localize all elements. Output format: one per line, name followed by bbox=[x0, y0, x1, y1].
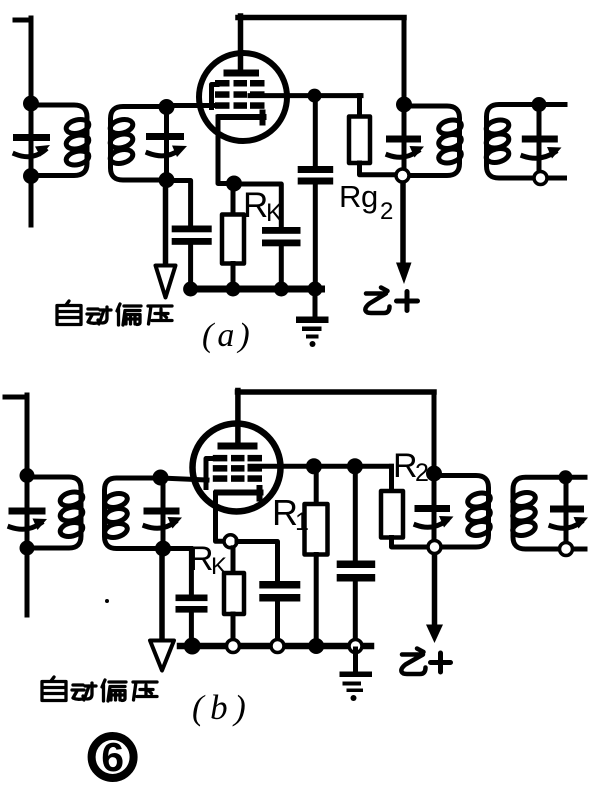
grid g3 dashed row of V2 (b) bbox=[213, 455, 228, 462]
label: Chinese text automatic bias (b) bbox=[42, 677, 157, 701]
node: open ring bottom of secondary tank (a) bbox=[534, 172, 547, 185]
resistor R1 (b) bbox=[305, 504, 328, 555]
capacitor: screen bypass cap (b) bbox=[337, 561, 376, 569]
arrow: B+ solid arrowhead (a) bbox=[396, 263, 412, 285]
capacitor: variable cap of plate tank (b) bbox=[432, 474, 437, 548]
cathode of V1 (a) bbox=[220, 113, 264, 123]
wire: right cap bottom stem (b) bbox=[275, 602, 280, 644]
wire: ground bus (a) bbox=[188, 286, 322, 293]
svg-text:2: 2 bbox=[415, 459, 429, 487]
svg-text:1: 1 bbox=[295, 508, 309, 536]
wire: screen to Rg2 corner (a) bbox=[357, 96, 362, 117]
grid g3 dashed row of V1 (a) bbox=[215, 80, 230, 87]
svg-text:(b): (b) bbox=[192, 688, 252, 727]
node: bus junction at right cap (a) bbox=[274, 282, 289, 297]
svg-text:K: K bbox=[211, 553, 227, 580]
node: open ring junction at B+ (a) bbox=[396, 169, 409, 182]
arrow: B+ solid arrowhead (b) bbox=[426, 625, 443, 644]
svg-text:6: 6 bbox=[101, 734, 124, 780]
node: tank2 bottom junction (b) bbox=[155, 541, 171, 557]
capacitor: left bypass cap (b) bbox=[176, 595, 208, 602]
wire: RK top stem (a) bbox=[231, 184, 236, 215]
wire: right cap bottom stem (a) bbox=[279, 246, 284, 288]
capacitor: variable cap of plate tank (a) bbox=[402, 105, 407, 175]
label 乙+ B plus supply (a) bbox=[365, 288, 389, 314]
svg-text:R: R bbox=[339, 179, 361, 214]
anode plate bar of V2 (b) bbox=[218, 443, 258, 450]
wire: plate top lead (a) bbox=[238, 16, 244, 70]
node: tank1 bottom junction (b) bbox=[20, 541, 35, 556]
wire: screen junction down to bypass cap C3 (a) bbox=[313, 96, 318, 167]
grid g1 dashed row of V1 (a) bbox=[215, 102, 230, 109]
wire: R1 top stem (b) bbox=[314, 466, 319, 504]
wire: cathode node to right bypass cap (a) bbox=[234, 184, 281, 228]
figure number 6 in circle bbox=[92, 736, 134, 778]
resistor RK (b) bbox=[224, 573, 244, 614]
svg-text:R: R bbox=[189, 540, 214, 578]
resistor RK (a) bbox=[222, 215, 244, 264]
capacitor: variable tuning cap of tank2 (a) bbox=[164, 107, 169, 180]
node: tank1 bottom junction (a) bbox=[23, 168, 39, 184]
node: screen junction at R1 (b) bbox=[306, 458, 322, 474]
wire: B+ vertical line (a) bbox=[402, 18, 407, 105]
node: bus open ring at ground (b) bbox=[349, 640, 362, 653]
inductor: IF transformer primary coil (a) bbox=[404, 106, 460, 176]
node: tank1 top junction (b) bbox=[20, 468, 35, 483]
wire: bias arrow shaft (b) bbox=[159, 549, 165, 642]
svg-text:g: g bbox=[361, 179, 378, 214]
anode plate bar of V1 (a) bbox=[224, 70, 260, 77]
svg-text:2: 2 bbox=[380, 198, 393, 225]
wire: B+ line below tank (b) bbox=[432, 547, 438, 626]
node: bus junction at left cap (b) bbox=[184, 638, 201, 655]
capacitor: variable cap of secondary tank (b) bbox=[564, 477, 569, 549]
wire: screen lead to right (a) bbox=[250, 93, 361, 98]
node: secondary tank top junction (b) bbox=[559, 470, 573, 484]
wire: bias arrow shaft (a) bbox=[163, 181, 169, 266]
inductor tank coil L2 (b) bbox=[105, 478, 191, 549]
svg-text:R: R bbox=[243, 186, 268, 225]
wire: left cap bottom stem (a) bbox=[188, 245, 193, 288]
capacitor: variable cap of secondary tank (a) bbox=[537, 105, 542, 179]
node: secondary tank top junction (a) bbox=[532, 97, 547, 112]
op-amp: (none) tube envelope V1 (a) bbox=[199, 53, 287, 141]
node: tank1 top junction (a) bbox=[23, 96, 39, 112]
wire: screen bypass cap bottom stem (b) bbox=[353, 582, 358, 644]
node: plate tank top junction (a) bbox=[396, 97, 412, 113]
grid g2 dashed row of V2 (b) bbox=[213, 465, 228, 472]
wire: B+ line below tank (a) bbox=[400, 176, 406, 267]
scan speck dot bbox=[105, 599, 109, 603]
wire: cathode node to right bypass cap (b) bbox=[237, 542, 278, 582]
wire: plate top lead (b) bbox=[235, 391, 241, 445]
inductor: IF transformer secondary coil (a) bbox=[487, 105, 566, 179]
arrow: automatic bias output hollow arrowhead (b) bbox=[150, 641, 174, 671]
wire: RK bottom stem (b) bbox=[231, 614, 236, 643]
capacitor: right cathode bypass cap (b) bbox=[259, 581, 300, 589]
node: bus open ring at RK (b) bbox=[227, 640, 240, 653]
wire: top supply wire (a) bbox=[238, 15, 404, 21]
svg-text:(a): (a) bbox=[202, 317, 254, 354]
capacitor: left cathode bypass cap (a) bbox=[172, 226, 212, 233]
node: screen junction at bypass cap (b) bbox=[347, 458, 363, 474]
capacitor: variable tuning cap of tank1 (b) bbox=[9, 508, 46, 515]
wire: left cap bottom stem (b) bbox=[189, 613, 194, 645]
wire: corner to R2 (b) bbox=[389, 466, 394, 491]
inductor: output transformer secondary coil (b) bbox=[513, 477, 585, 549]
node: tank2 top junction (a) bbox=[159, 99, 175, 115]
wire: screen lead to right (b) bbox=[250, 464, 392, 469]
capacitor: screen bypass cap (a) bbox=[298, 166, 334, 173]
wire: screen cap to ground bus (a) bbox=[313, 185, 318, 289]
svg-text:K: K bbox=[266, 199, 283, 227]
node: cathode open ring junction (b) bbox=[224, 535, 237, 548]
node: cathode junction (a) bbox=[226, 176, 242, 192]
capacitor: variable tuning cap of tank1 (a) bbox=[13, 134, 50, 141]
node: bus junction at R1 (b) bbox=[308, 638, 324, 654]
node: plate tank top junction (b) bbox=[426, 466, 442, 482]
wire: grid lead from tank2 to tube (a) bbox=[167, 103, 215, 108]
wire: cathode lead down (b) bbox=[216, 493, 225, 541]
label 乙+ B plus supply (b) bbox=[401, 649, 425, 675]
capacitor: right cathode bypass cap (a) bbox=[262, 227, 301, 234]
wire: screen bypass cap top stem (b) bbox=[353, 466, 358, 561]
wire: left antenna vertical line (a) bbox=[29, 18, 34, 225]
inductor: output transformer primary coil (b) bbox=[434, 476, 489, 548]
node: bus junction at RK (a) bbox=[226, 282, 241, 297]
node: tank2 bottom junction (a) bbox=[159, 172, 175, 188]
inductor L2 tank coil (a) bbox=[111, 107, 167, 181]
inductor L1 tank coil (a) bbox=[31, 105, 87, 176]
wire: cathode lead down (a) bbox=[218, 117, 234, 184]
wire: grid lead from tank2 to tube (b) bbox=[161, 478, 208, 480]
node: bus junction at left cap (a) bbox=[183, 282, 198, 297]
resistor R2 (b) bbox=[381, 491, 403, 538]
svg-text:R: R bbox=[393, 447, 418, 485]
wire: B+ vertical line (b) bbox=[432, 392, 437, 474]
wire: antenna stub top-left (b) bbox=[5, 395, 27, 400]
arrow: automatic bias output hollow arrowhead (a) bbox=[156, 266, 176, 298]
wire: antenna stub top-left (a) bbox=[15, 18, 31, 23]
cathode of V2 (b) bbox=[217, 488, 261, 499]
resistor Rg2 (a) bbox=[349, 117, 370, 164]
node: bus junction at ground (a) bbox=[308, 282, 323, 297]
wire: R2 bottom to B+ node (b) bbox=[392, 538, 429, 548]
tube envelope V2 (b) bbox=[193, 424, 281, 512]
node: screen junction (a) bbox=[308, 89, 322, 103]
ground symbol (a) bbox=[313, 289, 318, 316]
grid g1 dashed row of V2 (b) bbox=[213, 475, 228, 482]
node: open ring bottom of secondary tank (b) bbox=[560, 543, 573, 556]
wire: ground bus (b) bbox=[180, 643, 371, 650]
capacitor: variable tuning cap of tank2 (b) bbox=[161, 478, 166, 549]
wire: top supply wire (b) bbox=[238, 389, 435, 395]
node: open ring junction at B+ (b) bbox=[428, 541, 441, 554]
wire: tank2 bottom to bypass cap (a) bbox=[167, 181, 191, 227]
wire: R1 bottom stem (b) bbox=[314, 555, 319, 646]
label: Chinese text automatic bias (a) bbox=[57, 301, 172, 325]
ground symbol (b) bbox=[353, 649, 358, 671]
grid g2 dashed row of V1 (a) bbox=[215, 91, 230, 98]
node: bus open ring at right cap (b) bbox=[271, 640, 284, 653]
wire: grid bracket inside tube (b) bbox=[206, 459, 212, 488]
wire: RK bottom stem (a) bbox=[231, 264, 236, 289]
wire: RK top stem (b) bbox=[231, 548, 236, 574]
inductor tank coil L1 (b) bbox=[27, 477, 81, 548]
wire: grid bracket inside tube (a) bbox=[212, 85, 218, 108]
wire: left antenna vertical line (b) bbox=[25, 395, 30, 615]
node: tank2 top junction (b) bbox=[153, 470, 169, 486]
wire: Rg2 bottom to B+ node (a) bbox=[360, 163, 403, 175]
wire: tank2 bottom to left bypass cap (b) bbox=[163, 549, 191, 596]
